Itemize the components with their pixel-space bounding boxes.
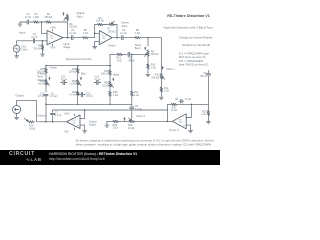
wire	[45, 96, 47, 104]
svg-text:100 kΩ: 100 kΩ	[151, 77, 159, 80]
label Driver 2	[169, 128, 179, 132]
svg-text:10 kΩ: 10 kΩ	[102, 84, 109, 87]
resistor R8	[134, 29, 141, 39]
potentiometer R18 Volume	[24, 114, 47, 131]
capacitor C3	[69, 29, 76, 40]
resistor R14	[131, 91, 139, 98]
resistor R26	[109, 91, 118, 97]
ground	[206, 120, 210, 124]
capacitor C6	[130, 105, 142, 111]
svg-text:4.7 kΩ: 4.7 kΩ	[69, 94, 76, 97]
wire	[77, 66, 79, 68]
wire	[16, 114, 18, 116]
voltage source V1	[13, 41, 28, 52]
flag Drive+	[162, 66, 176, 71]
potentiometer R22	[70, 79, 81, 86]
svg-text:Bend: Bend	[135, 47, 141, 50]
wire	[110, 53, 116, 55]
wire	[119, 120, 129, 122]
ground	[40, 52, 44, 56]
wire	[186, 104, 191, 117]
svg-text:2.2 µF: 2.2 µF	[55, 114, 62, 117]
op-amp IC2B	[172, 114, 186, 129]
wire	[95, 41, 100, 44]
svg-text:10 kΩ: 10 kΩ	[38, 83, 45, 86]
svg-text:10 kΩ: 10 kΩ	[29, 127, 36, 130]
svg-text:1 kΩ: 1 kΩ	[83, 32, 88, 35]
svg-text:1 kΩ: 1 kΩ	[151, 66, 156, 69]
svg-text:47 nF: 47 nF	[25, 16, 32, 19]
svg-text:1 MΩ: 1 MΩ	[33, 16, 39, 19]
svg-text:+V9V: +V9V	[50, 27, 56, 30]
wire	[67, 22, 69, 38]
resistor R2	[44, 13, 52, 23]
wire	[109, 76, 111, 81]
wire	[42, 22, 48, 33]
svg-text:1 kΩ: 1 kΩ	[135, 32, 140, 35]
svg-text:2.2 µF: 2.2 µF	[135, 108, 142, 111]
wire	[45, 66, 47, 68]
svg-text:750 kΩ: 750 kΩ	[44, 16, 52, 19]
svg-text:−: −	[183, 116, 185, 120]
svg-text:1/4: 1/4	[50, 38, 54, 40]
node E	[147, 37, 149, 39]
resistor R19	[37, 67, 47, 73]
wire	[52, 116, 54, 122]
svg-text:+: +	[183, 123, 185, 127]
wire	[106, 121, 108, 123]
wire	[109, 54, 111, 65]
wire	[52, 21, 68, 23]
node	[52, 121, 54, 123]
wire	[20, 21, 26, 23]
svg-text:1 kΩ: 1 kΩ	[113, 127, 118, 130]
wire	[17, 40, 33, 42]
svg-text:Drive 2: Drive 2	[137, 114, 146, 118]
ground	[18, 22, 22, 26]
svg-text:100 kΩ: 100 kΩ	[101, 73, 109, 76]
resistor R13	[116, 53, 123, 62]
svg-text:1 kΩ: 1 kΩ	[134, 94, 139, 97]
resistor R6	[95, 17, 104, 26]
svg-text:C8: C8	[175, 98, 179, 101]
resistor R1	[33, 13, 40, 23]
resistor R3	[33, 44, 44, 50]
wire	[147, 57, 149, 64]
svg-text:Experimental Circuitry: Experimental Circuitry	[66, 57, 93, 61]
svg-text:750 kΩ: 750 kΩ	[33, 47, 41, 50]
wire	[160, 93, 162, 96]
svg-text:Machine: Machine	[37, 78, 48, 82]
wire	[53, 109, 168, 111]
svg-text:100 kΩ: 100 kΩ	[96, 20, 104, 23]
wire	[135, 120, 173, 122]
resistor R23	[69, 91, 79, 97]
wire	[167, 104, 169, 121]
svg-text:Stage: Stage	[89, 122, 97, 126]
power -V9V	[50, 44, 56, 50]
capacitor C9	[200, 72, 210, 78]
footer bar	[0, 150, 220, 165]
resistor R21	[69, 67, 79, 73]
svg-text:Input: Input	[19, 31, 25, 35]
CircuitLab logo	[9, 151, 35, 157]
wire	[160, 38, 162, 73]
output jack J1	[13, 101, 21, 114]
svg-text:10 kΩ: 10 kΩ	[70, 83, 77, 86]
wire	[124, 37, 134, 39]
svg-text:clean operation, resulting in: clean operation, resulting in a high-gai…	[76, 143, 213, 147]
wire	[207, 76, 209, 110]
ground	[159, 95, 163, 99]
wire	[131, 109, 133, 119]
svg-text:Gain: Gain	[122, 24, 128, 28]
svg-text:2.2 µF: 2.2 µF	[120, 32, 127, 35]
svg-text:1/2: 1/2	[72, 123, 76, 125]
wire	[77, 96, 79, 104]
svg-text:2.2 µF: 2.2 µF	[69, 32, 76, 35]
wire	[52, 110, 54, 112]
op-amp IC1B	[99, 31, 112, 45]
svg-text:1 kΩ: 1 kΩ	[117, 59, 122, 62]
svg-text:2/4: 2/4	[102, 38, 106, 40]
label Experimental Circuitry	[66, 57, 93, 61]
wire	[94, 25, 96, 34]
capacitor C5a	[128, 52, 135, 62]
svg-text:47 nF: 47 nF	[86, 95, 93, 98]
svg-text:RS-Timbre Distortion V1: RS-Timbre Distortion V1	[167, 14, 210, 18]
node C	[94, 33, 96, 35]
wire	[39, 21, 45, 23]
node B	[42, 40, 44, 42]
resistor R27	[201, 110, 209, 116]
power +V9V	[64, 112, 75, 115]
label Output Stage	[89, 119, 97, 126]
flag wiper	[144, 47, 146, 51]
svg-text:Mid: Mid	[81, 72, 86, 76]
wire	[123, 53, 128, 55]
wire	[107, 120, 112, 122]
svg-text:2/2: 2/2	[179, 122, 183, 124]
label Input Stage	[63, 42, 71, 49]
power +V9V	[50, 27, 56, 32]
wire	[168, 103, 171, 105]
label Stand Bend	[135, 44, 142, 50]
ground	[146, 72, 150, 76]
ground	[15, 115, 19, 119]
wire	[42, 50, 44, 52]
wire	[177, 103, 208, 105]
wire	[37, 121, 67, 123]
footer text	[49, 152, 137, 156]
node feedback	[67, 37, 69, 39]
label Treble	[48, 66, 57, 81]
svg-text:47 nF: 47 nF	[38, 95, 45, 98]
node A	[41, 21, 43, 23]
wire	[147, 69, 149, 72]
wire	[131, 54, 133, 90]
capacitor C14	[94, 76, 101, 85]
svg-text:1 kΩ: 1 kΩ	[113, 94, 118, 97]
svg-text:Volume: Volume	[37, 114, 46, 118]
potentiometer R7 Driver Gain	[108, 21, 130, 34]
wire top bus	[46, 65, 111, 67]
wire	[103, 24, 108, 26]
svg-text:10 kΩ: 10 kΩ	[128, 127, 135, 130]
caption	[76, 138, 214, 146]
wire	[45, 104, 47, 122]
svg-text:1 kΩ: 1 kΩ	[201, 113, 206, 116]
svg-text:Verified by CircuitLab: Verified by CircuitLab	[182, 43, 211, 47]
potentiometer R25	[102, 81, 113, 88]
node F	[131, 54, 133, 56]
svg-text:Driver: Driver	[109, 43, 116, 47]
wire	[147, 38, 149, 47]
resistor R5	[82, 29, 89, 39]
svg-text:Output: Output	[15, 93, 24, 97]
wire	[63, 37, 71, 39]
svg-text:Gain: Gain	[77, 14, 83, 18]
node	[84, 109, 86, 111]
flag wiper	[123, 117, 126, 121]
wire	[45, 74, 47, 80]
capacitor C2	[31, 33, 38, 43]
wire	[74, 37, 82, 39]
node	[45, 104, 111, 106]
svg-text:Bass: Bass	[113, 73, 120, 77]
wire	[109, 97, 111, 104]
svg-text:47 pF: 47 pF	[185, 98, 192, 101]
wire	[16, 52, 18, 54]
node	[45, 121, 47, 123]
svg-text:100 kΩ: 100 kΩ	[69, 71, 77, 74]
svg-text:Design by Kurtus Richter: Design by Kurtus Richter	[179, 36, 212, 40]
wire	[80, 125, 85, 129]
resistor R12	[160, 87, 169, 93]
svg-text:0.1 µF: 0.1 µF	[50, 95, 57, 98]
wire	[89, 33, 100, 37]
node	[45, 65, 111, 67]
ground	[83, 129, 87, 133]
svg-text:1 kΩ: 1 kΩ	[164, 90, 169, 93]
capacitor C4	[120, 29, 127, 40]
svg-text:47 nF: 47 nF	[61, 78, 68, 81]
op-amp IC1A	[47, 31, 63, 45]
svg-text:100 kΩ: 100 kΩ	[108, 30, 116, 33]
resistor R10	[147, 63, 156, 69]
wire	[130, 53, 146, 55]
capacitor C12	[78, 92, 93, 98]
label 3-Band Tone Machine	[37, 71, 48, 81]
wire	[131, 97, 133, 106]
ground	[105, 123, 109, 127]
potentiometer R16 Drive 2	[128, 114, 146, 130]
wire	[207, 116, 209, 120]
wire	[77, 86, 79, 91]
svg-text:+: +	[77, 123, 79, 127]
op-amp IC2A	[67, 115, 81, 129]
wire	[45, 86, 47, 92]
wire	[36, 101, 38, 122]
wire	[35, 40, 47, 42]
label Bass	[112, 73, 120, 82]
svg-text:68 nF: 68 nF	[200, 75, 207, 78]
svg-text:-V9V: -V9V	[64, 130, 70, 133]
potentiometer R20	[38, 79, 49, 86]
wire	[141, 37, 162, 39]
wire	[112, 37, 121, 39]
capacitor C1	[25, 13, 32, 24]
label Input	[19, 31, 25, 35]
svg-text:Driver 2: Driver 2	[169, 128, 179, 132]
capacitor C8	[175, 98, 192, 103]
node D	[116, 37, 118, 39]
wire	[17, 100, 37, 102]
svg-text:47 kΩ: 47 kΩ	[171, 109, 178, 112]
node	[191, 104, 193, 106]
svg-text:-V9V: -V9V	[50, 47, 56, 50]
capacitor C13	[61, 76, 68, 85]
svg-text:−: −	[77, 116, 79, 120]
svg-text:100 kΩ: 100 kΩ	[151, 53, 159, 56]
wire	[186, 125, 190, 129]
svg-text:Stage: Stage	[63, 45, 71, 49]
title block	[163, 14, 213, 66]
label Driver	[109, 43, 116, 47]
capacitor C10	[38, 92, 58, 98]
wire	[109, 88, 111, 91]
label Output	[15, 93, 24, 97]
svg-text:Drive +: Drive +	[167, 67, 176, 71]
wire	[42, 41, 44, 44]
resistor R15	[112, 120, 119, 129]
svg-text:1 kHz: 1 kHz	[21, 48, 28, 51]
wire	[115, 25, 117, 38]
ground	[93, 45, 97, 49]
svg-text:High-Gain Distortion with 3-Ba: High-Gain Distortion with 3-Band Tone	[163, 25, 213, 29]
wire	[80, 110, 85, 118]
potentiometer R9	[145, 50, 159, 57]
capacitor C7	[51, 111, 63, 117]
ground	[189, 129, 193, 133]
svg-text:47 nF: 47 nF	[95, 78, 102, 81]
svg-text:47 nF: 47 nF	[31, 36, 38, 39]
resistor R17	[171, 103, 178, 112]
power -V9V	[64, 128, 75, 134]
resistor R24	[101, 70, 111, 76]
svg-text:+V9V: +V9V	[64, 112, 70, 115]
svg-text:dual CMOS op-Amp IC.: dual CMOS op-Amp IC.	[179, 63, 210, 67]
wire	[207, 71, 209, 73]
wire	[109, 66, 111, 70]
wire bottom bus	[46, 103, 132, 105]
wire	[29, 21, 33, 23]
ground	[15, 54, 19, 58]
wire	[160, 80, 162, 87]
potentiometer R4 Signal Gain	[62, 11, 84, 28]
node	[167, 121, 169, 123]
label Mid	[80, 72, 86, 81]
svg-text:Treble: Treble	[49, 66, 57, 70]
svg-text:100 kΩ: 100 kΩ	[69, 26, 77, 29]
wire	[77, 74, 79, 80]
potentiometer R11	[151, 73, 165, 80]
